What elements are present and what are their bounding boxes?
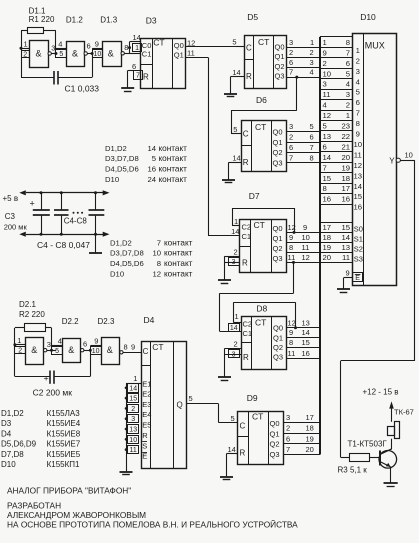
pin 4 stub D1.2: [56, 48, 67, 50]
label MUX: [365, 40, 385, 50]
label C2 value: [33, 387, 73, 397]
svg-text:D1,D2: D1,D2: [110, 238, 132, 247]
svg-text:R2 220: R2 220: [19, 310, 45, 319]
ground D5: [224, 94, 237, 97]
wire D4.Q down: [218, 404, 220, 423]
svg-text:C: C: [243, 130, 249, 139]
svg-text:3: 3: [310, 58, 314, 67]
svg-text:5: 5: [231, 414, 235, 423]
svg-text:НА ОСНОВЕ ПРОТОТИПА ПОМЕЛОВА В: НА ОСНОВЕ ПРОТОТИПА ПОМЕЛОВА В.Н. И РЕАЛ…: [7, 518, 298, 529]
label +5V: [3, 194, 19, 203]
label Q1 D9: [270, 429, 280, 438]
pin 10 label Y: [405, 150, 413, 159]
wire D2.1 out to D2.2: [47, 350, 56, 352]
wire D8 selfloop into C2: [234, 302, 242, 322]
svg-text:3: 3: [323, 80, 327, 89]
pin 10 box D2.3: [91, 347, 102, 355]
svg-text:CT: CT: [258, 37, 269, 47]
wire Y down: [414, 160, 416, 361]
wire C2 right: [55, 376, 91, 378]
label D4: [144, 315, 155, 325]
svg-text:D1,D2: D1,D2: [1, 409, 24, 418]
wire D7.Q3 to D8 down: [293, 262, 295, 293]
pin 1 label D8: [235, 312, 239, 321]
svg-text:C: C: [240, 421, 246, 430]
svg-text:E5: E5: [142, 421, 151, 430]
pin 9 label D4: [131, 343, 135, 352]
label C4-C8 value: [37, 240, 90, 250]
junction D2 pin1: [13, 343, 16, 346]
wire D2.3 out to D4.C: [123, 352, 141, 354]
junction D3 input: [128, 46, 131, 49]
svg-text:Q3: Q3: [273, 159, 283, 168]
svg-text:14: 14: [323, 153, 332, 162]
svg-text:9: 9: [323, 48, 327, 57]
wire D5.Q2 net3: [287, 67, 321, 69]
svg-text:7: 7: [346, 48, 350, 57]
pin 2 label D9: [286, 424, 290, 433]
label E2 D4: [142, 390, 151, 399]
wire GND rail: [26, 234, 103, 236]
svg-text:D9: D9: [247, 393, 258, 403]
junction D7.Q3: [292, 261, 295, 264]
pin 6 label D5: [289, 58, 293, 67]
list GND contacts: [110, 238, 193, 278]
label D5: [247, 12, 258, 22]
svg-text:8: 8: [157, 259, 161, 268]
ground D4: [120, 472, 133, 475]
svg-text:16: 16: [323, 195, 332, 204]
pin 7 label D9: [286, 445, 290, 454]
pin 1 label D2.1: [17, 336, 21, 345]
pin 13 box D4: [128, 425, 139, 434]
inverter circle D1.2 output: [84, 52, 87, 55]
junctions D4 enable pins: [125, 387, 128, 451]
svg-text:15: 15: [354, 192, 363, 201]
wire D7.Q2 net11: [287, 252, 321, 254]
label E3 D4: [142, 400, 151, 409]
svg-text:11: 11: [354, 150, 362, 159]
svg-text:7: 7: [323, 163, 327, 172]
junction pin1: [20, 47, 23, 50]
ground E: [337, 289, 350, 293]
svg-text:2: 2: [323, 59, 327, 68]
svg-text:E: E: [355, 275, 360, 282]
pin 1 box D3: [133, 44, 142, 53]
label Q2 D5: [275, 62, 285, 71]
wire pin1 into D1.1: [21, 48, 29, 50]
pin E box: [353, 273, 363, 283]
wire C2 right vertical: [90, 350, 92, 376]
svg-text:23: 23: [341, 122, 350, 131]
wire D7.Q0 net9: [287, 232, 321, 234]
arrow GND rail left: [19, 232, 26, 237]
wire D9.Q0 net17: [284, 422, 321, 424]
svg-text:D5,D6,D9: D5,D6,D9: [1, 440, 37, 449]
label R1 value: [29, 15, 55, 24]
svg-text:Q1: Q1: [174, 51, 184, 60]
pin 10 box D1.3: [93, 50, 103, 59]
svg-text:D4,D5,D6: D4,D5,D6: [105, 165, 139, 174]
counter D5 box: [244, 35, 287, 89]
svg-text:1: 1: [135, 45, 139, 52]
svg-text:12: 12: [302, 253, 310, 262]
svg-text:Q2: Q2: [275, 62, 285, 71]
parts list: [1, 409, 81, 469]
svg-text:14: 14: [231, 227, 239, 236]
svg-text:Q2: Q2: [273, 343, 283, 352]
pin 3 label D9: [286, 413, 290, 422]
resistor R2: [25, 324, 46, 332]
net 19 label: [306, 434, 314, 443]
svg-text:D3: D3: [146, 16, 157, 26]
svg-text:1: 1: [235, 312, 239, 321]
pin 2 label D8: [234, 340, 238, 349]
label +12-15V: [363, 387, 399, 396]
svg-text:6: 6: [289, 143, 293, 152]
svg-text:C2 200 мк: C2 200 мк: [33, 387, 73, 397]
svg-text:C4-C8: C4-C8: [64, 216, 88, 225]
svg-text:7: 7: [310, 143, 314, 152]
svg-text:4: 4: [356, 77, 361, 86]
label S0: [354, 225, 363, 234]
label T1 value: [348, 440, 388, 449]
svg-text:17: 17: [306, 413, 314, 422]
resistor R3: [350, 454, 370, 462]
svg-text:АНАЛОГ ПРИБОРА "ВИТАФОН": АНАЛОГ ПРИБОРА "ВИТАФОН": [7, 486, 131, 496]
wire D5.Q3 branch into D6.C: [231, 110, 241, 133]
svg-text:3: 3: [289, 38, 293, 47]
svg-text:3: 3: [131, 416, 135, 423]
svg-text:9: 9: [289, 328, 293, 337]
pin 2 label D5: [289, 48, 293, 57]
svg-text:E: E: [142, 452, 147, 461]
label D1.3: [100, 16, 117, 25]
wire D9.Q3 net20: [284, 454, 321, 456]
svg-text:17: 17: [323, 223, 332, 232]
label Q0 D6: [273, 127, 283, 136]
label Q1 D3: [174, 51, 184, 60]
svg-text:2: 2: [310, 48, 314, 57]
counter D9 box: [237, 411, 283, 464]
svg-text:D3,D7,D8: D3,D7,D8: [110, 249, 144, 258]
wire pin1 into D2.1: [15, 344, 26, 346]
text razrabotan: [7, 500, 61, 510]
svg-text:5: 5: [152, 154, 156, 163]
net 5 label: [310, 122, 314, 131]
pin 14 label D9: [228, 445, 236, 454]
pin 5 box D2.2: [52, 347, 63, 355]
arrow GND rail right: [103, 232, 110, 237]
svg-text:C2: C2: [243, 319, 253, 328]
net 16 label: [302, 349, 310, 358]
svg-text:5: 5: [232, 37, 236, 46]
pin 6 label D6: [289, 143, 293, 152]
net 18 label: [306, 424, 314, 433]
wire D3.Q1 right: [185, 57, 208, 59]
svg-text:5: 5: [323, 122, 327, 131]
svg-text:1: 1: [346, 111, 350, 120]
label D1.2: [66, 16, 83, 25]
svg-text:Q2: Q2: [273, 244, 283, 253]
svg-text:E3: E3: [142, 400, 151, 409]
wire +5V rail: [26, 192, 103, 194]
junction C3 top: [40, 191, 43, 194]
svg-text:13: 13: [323, 132, 332, 141]
wire Y down to R3: [340, 361, 342, 457]
mux select pin numbers: [323, 223, 351, 262]
svg-text:&: &: [68, 345, 74, 355]
svg-text:C1: C1: [142, 50, 152, 59]
svg-text:MUX: MUX: [365, 40, 385, 50]
pin 3 box D8: [229, 350, 240, 359]
capacitor C2: [50, 371, 54, 384]
svg-text:Q3: Q3: [275, 72, 285, 81]
pin 7 label D5: [289, 68, 293, 77]
pin 1 label D4 E1: [133, 374, 137, 383]
label D10: [360, 12, 376, 22]
svg-text:9: 9: [131, 343, 135, 352]
svg-text:1: 1: [356, 46, 360, 55]
svg-text:10: 10: [302, 233, 310, 242]
svg-text:3: 3: [51, 44, 55, 53]
wire feedback left vertical: [21, 31, 23, 77]
label Q0 D3: [174, 41, 184, 50]
gate D2.1: [26, 338, 44, 365]
net 17 label: [306, 413, 314, 422]
text na osnove: [7, 518, 298, 529]
svg-text:7: 7: [157, 238, 161, 247]
svg-text:D7,D8: D7,D8: [1, 450, 24, 459]
svg-text:Q3: Q3: [270, 450, 280, 459]
wire D6.Q2 net7: [287, 152, 321, 154]
pin 11 label D3: [187, 48, 195, 57]
svg-text:S0: S0: [354, 225, 363, 234]
resistor R1: [28, 28, 44, 34]
wire D3 C0 stub: [130, 41, 141, 43]
svg-text:2: 2: [23, 51, 27, 58]
wire D5.Q0 net1: [287, 47, 321, 49]
svg-text:контакт: контакт: [159, 154, 188, 163]
svg-text:S: S: [142, 441, 147, 450]
svg-text:+: +: [44, 374, 49, 384]
label R3 value: [338, 466, 368, 475]
label Q0 D9: [270, 419, 280, 428]
ground D7: [218, 280, 231, 284]
svg-text:19: 19: [323, 243, 332, 252]
svg-text:Q1: Q1: [270, 429, 280, 438]
svg-text:4: 4: [58, 336, 62, 345]
svg-text:19: 19: [306, 434, 314, 443]
svg-text:5: 5: [55, 348, 59, 355]
wire D4 E1 stub: [126, 383, 141, 385]
svg-text:12: 12: [354, 161, 363, 170]
svg-text:D1.3: D1.3: [100, 16, 117, 25]
svg-text:9: 9: [95, 40, 99, 49]
svg-text:6: 6: [346, 59, 350, 68]
wire D8 R tie: [225, 348, 242, 376]
label C3 value: [4, 222, 28, 231]
svg-text:3: 3: [346, 90, 350, 99]
svg-text:14: 14: [129, 385, 137, 392]
label S1: [354, 235, 363, 244]
label D8: [256, 304, 267, 314]
junction C3 bottom: [40, 233, 43, 236]
label S3: [354, 255, 363, 264]
svg-text:8: 8: [289, 243, 293, 252]
svg-text:C3: C3: [5, 212, 16, 221]
svg-text:E4: E4: [142, 410, 151, 419]
wire Y right: [400, 160, 414, 162]
svg-text:R: R: [243, 353, 249, 362]
gate D1.1: [30, 41, 49, 68]
label C1 value: [65, 83, 100, 93]
svg-text:16: 16: [341, 195, 350, 204]
svg-text:10: 10: [92, 348, 100, 355]
gate D2.2: [63, 339, 81, 363]
svg-text:CT: CT: [255, 317, 266, 327]
svg-text:14: 14: [228, 445, 236, 454]
capacitor C8: [89, 193, 105, 234]
label Q1 D5: [275, 52, 285, 61]
label D9: [247, 393, 258, 403]
inverter circle D1.3 output: [121, 52, 124, 55]
svg-text:16: 16: [302, 349, 310, 358]
label D2.3: [98, 317, 115, 326]
svg-text:9: 9: [346, 268, 350, 277]
mux input pin numbers: [323, 38, 351, 204]
svg-text:C: C: [143, 347, 149, 356]
svg-text:11: 11: [288, 349, 296, 358]
capacitor C1: [54, 71, 58, 85]
wire D8 selfloop top: [234, 302, 296, 304]
wire D9.Q2 net19: [284, 443, 321, 445]
svg-text:контакт: контакт: [164, 249, 193, 258]
svg-text:R1 220: R1 220: [29, 15, 55, 24]
wire D8.Q3 net16: [287, 358, 321, 360]
pin 4 label D2.2: [58, 336, 62, 345]
svg-text:8: 8: [124, 43, 128, 52]
net 4 label: [310, 68, 314, 77]
pin 3 box D7: [229, 258, 240, 267]
label Q3 D6: [273, 159, 283, 168]
svg-text:6: 6: [286, 434, 290, 443]
net 10 label: [302, 233, 310, 242]
svg-text:R: R: [246, 72, 252, 81]
svg-text:12: 12: [288, 223, 296, 232]
svg-text:D10: D10: [360, 12, 376, 22]
svg-text:&: &: [31, 345, 37, 355]
label Q2 D8: [273, 343, 283, 352]
capacitor C3: [33, 193, 50, 234]
svg-text:11: 11: [187, 48, 195, 57]
svg-text:5: 5: [233, 125, 237, 134]
svg-text:9: 9: [356, 130, 360, 139]
wire C8 ground stub: [95, 234, 97, 252]
svg-text:К155ИЕ7: К155ИЕ7: [47, 440, 81, 449]
svg-text:CT: CT: [255, 122, 266, 132]
label D1.1: [29, 7, 46, 16]
net 1 label: [310, 38, 314, 47]
svg-text:Q0: Q0: [273, 127, 283, 136]
gate D1.3: [103, 42, 122, 67]
svg-text:10: 10: [354, 140, 363, 149]
svg-text:2: 2: [356, 56, 360, 65]
svg-text:10: 10: [152, 249, 161, 258]
ground D8: [218, 377, 231, 381]
svg-text:14: 14: [302, 328, 310, 337]
pin 5 label D4.Q: [189, 394, 193, 403]
svg-text:Т1-КТ503Г: Т1-КТ503Г: [348, 440, 388, 449]
svg-text:+12 - 15 в: +12 - 15 в: [363, 387, 399, 396]
svg-text:3: 3: [289, 122, 293, 131]
svg-text:18: 18: [341, 174, 350, 183]
svg-text:Q0: Q0: [273, 324, 283, 333]
pin 3 label D6: [289, 122, 293, 131]
svg-text:Q0: Q0: [273, 224, 283, 233]
counter D6 box: [241, 121, 287, 172]
svg-text:6: 6: [310, 133, 314, 142]
pin 14 label D7: [231, 227, 239, 236]
inverter circle D2.3 output: [120, 351, 123, 354]
pin 14 box D8: [229, 324, 240, 332]
svg-text:14: 14: [232, 68, 240, 77]
svg-text:6: 6: [87, 41, 91, 50]
inverter circle D2.2 output: [81, 349, 84, 352]
pin 6 label: [87, 41, 91, 50]
wire D6.Q3 net8: [287, 162, 321, 164]
svg-text:1: 1: [17, 336, 21, 345]
svg-text:S3: S3: [354, 255, 363, 264]
counter D3 box: [141, 37, 186, 88]
svg-text:17: 17: [341, 184, 350, 193]
svg-text:13: 13: [341, 243, 350, 252]
svg-text:3: 3: [47, 340, 51, 349]
wire D5 R stub: [231, 76, 245, 78]
svg-text:11: 11: [288, 253, 296, 262]
pin 7 label D6: [289, 154, 293, 163]
svg-text:CT: CT: [252, 411, 263, 421]
svg-text:6: 6: [83, 339, 87, 348]
svg-text:20: 20: [306, 445, 314, 454]
arrow +5V rail right: [103, 190, 110, 195]
wire E to ground: [344, 278, 353, 289]
svg-text:C1 0,033: C1 0,033: [65, 83, 100, 93]
svg-text:2: 2: [289, 48, 293, 57]
svg-text:К155ИЕ5: К155ИЕ5: [47, 450, 81, 459]
wire D5.Q1 net2: [287, 57, 321, 59]
text aleksandrom: [7, 510, 146, 520]
svg-text:&: &: [72, 49, 78, 59]
svg-text:1: 1: [310, 38, 314, 47]
svg-text:Q1: Q1: [273, 234, 283, 243]
pin 8 label D7: [289, 243, 293, 252]
svg-text:3: 3: [356, 67, 360, 76]
svg-text:6: 6: [132, 62, 136, 71]
svg-text:К155ЛА3: К155ЛА3: [47, 409, 81, 418]
svg-text:Q0: Q0: [270, 419, 280, 428]
svg-text:15: 15: [302, 338, 310, 347]
wire D3 R to ground: [127, 71, 129, 88]
svg-text:&: &: [35, 49, 41, 59]
svg-text:8: 8: [346, 38, 350, 47]
svg-text:5: 5: [189, 394, 193, 403]
net 9 label: [303, 223, 307, 232]
svg-text:контакт: контакт: [159, 165, 188, 174]
label Q1 D7: [273, 234, 283, 243]
svg-text:2: 2: [286, 424, 290, 433]
svg-text:15: 15: [341, 223, 350, 232]
